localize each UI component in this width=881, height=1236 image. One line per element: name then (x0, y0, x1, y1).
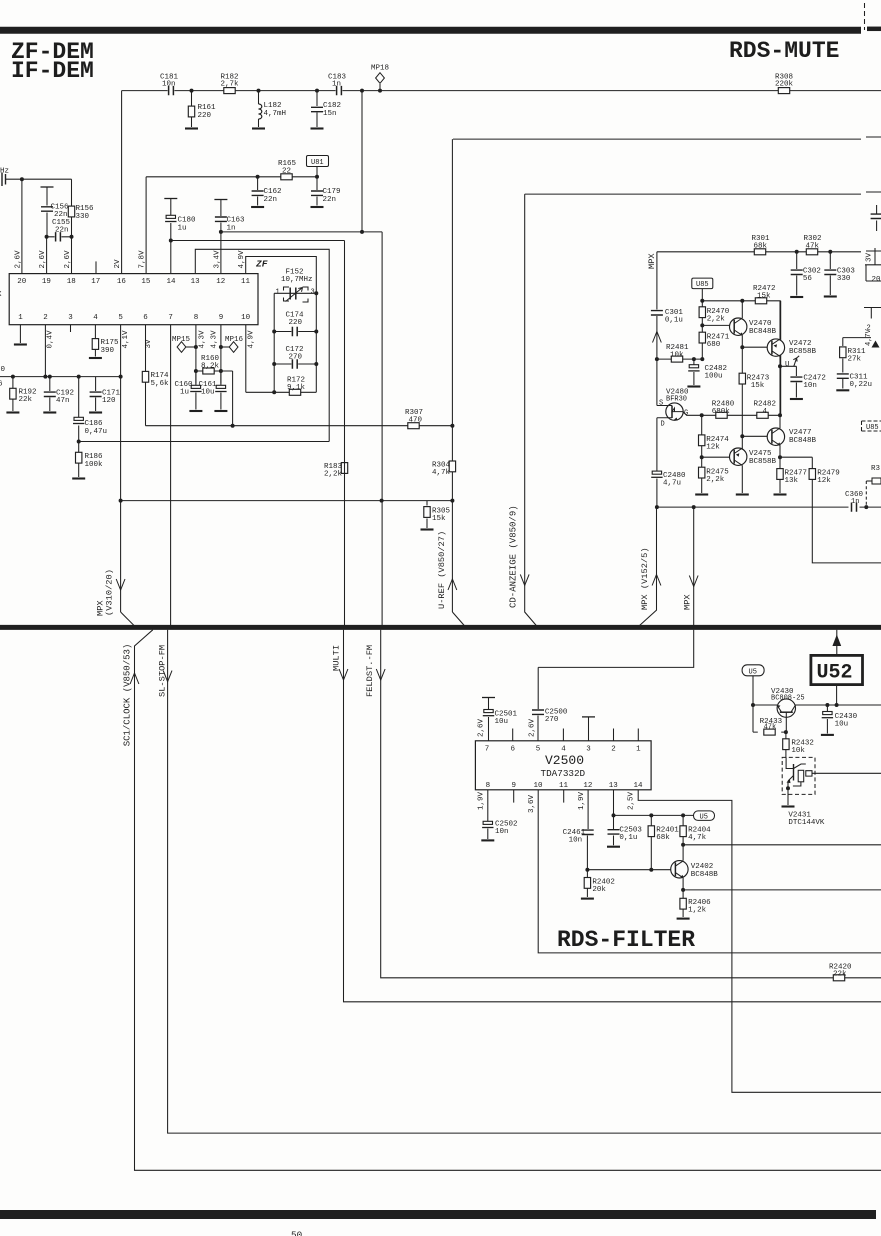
node: U-REF junction (450, 499, 454, 503)
svg-text:2,2k: 2,2k (707, 316, 726, 324)
svg-text:1,2k: 1,2k (688, 907, 707, 915)
resistor R160 (196, 355, 233, 374)
svg-text:3,6V: 3,6V (528, 794, 536, 813)
svg-text:U-REF (V850/27): U-REF (V850/27) (437, 531, 447, 609)
svg-text:4,1V: 4,1V (122, 330, 130, 349)
ground below C2503 (607, 846, 620, 848)
svg-text:3: 3 (311, 289, 315, 297)
svg-text:47k: 47k (806, 243, 820, 251)
inductor L182 (259, 91, 287, 127)
node: V2430 collector junction (784, 730, 788, 734)
wire: U-REF takeoff line y=500.6 (121, 500, 453, 502)
dashed page link + resistor fragment right edge (866, 465, 881, 507)
resistor R2402 (584, 870, 615, 897)
svg-text:3V: 3V (145, 339, 153, 349)
transistor V2475 BC858B (730, 448, 777, 493)
svg-text:220: 220 (198, 112, 212, 120)
node: C360 right (864, 505, 868, 509)
wire: pin14 riser (170, 241, 172, 274)
svg-text:220k: 220k (775, 81, 794, 89)
svg-text:C163: C163 (227, 217, 246, 225)
IC pin box U5 (filter) (694, 811, 715, 822)
resistor R2404 (680, 815, 711, 844)
ground below C161 (214, 410, 227, 412)
capacitor C161 (199, 371, 227, 410)
node: R2480 left (700, 413, 704, 417)
wire: collector rail y=844.8 (683, 844, 881, 846)
node: C303 top (828, 250, 832, 254)
capacitor C179 (311, 177, 341, 206)
svg-text:MULTI: MULTI (332, 645, 342, 671)
arrow on C301 line (653, 332, 662, 343)
wire: ZF inner left rail (273, 293, 275, 392)
svg-text:15: 15 (141, 278, 151, 286)
svg-text:15n: 15n (323, 110, 337, 118)
node: pin20 riser junction (20, 177, 24, 181)
svg-text:0,4V: 0,4V (47, 330, 55, 349)
svg-text:2,7k: 2,7k (221, 81, 240, 89)
resistor R301 (752, 235, 771, 255)
svg-text:2,2k: 2,2k (324, 471, 343, 479)
ground below C179 (311, 206, 324, 208)
svg-text:MPX: MPX (683, 594, 693, 610)
svg-text:15k: 15k (432, 515, 446, 523)
node: V2477 base junction (740, 434, 744, 438)
wire: V2402 base rail y=869.7 (587, 869, 671, 871)
capacitor C2482 (688, 359, 727, 385)
top border bus bar (0, 27, 861, 34)
capacitor C172 (274, 346, 316, 369)
node: C180 bottom junction (169, 239, 173, 243)
svg-text:10u: 10u (495, 718, 509, 726)
svg-text:MPX: MPX (647, 253, 657, 269)
resistor R2481 (666, 344, 689, 362)
resistor R165 (278, 160, 297, 180)
node: R2482 right (778, 413, 782, 417)
svg-text:5,6k: 5,6k (151, 380, 170, 388)
ground below R2402 (581, 898, 594, 900)
resistor R2480 (712, 401, 735, 419)
svg-text:R156: R156 (76, 205, 95, 213)
svg-text:4,3V: 4,3V (211, 330, 219, 349)
svg-text:4: 4 (561, 746, 566, 754)
signal MPX (V310/20) with arrow into divider (96, 569, 137, 627)
resistor R2406 (680, 890, 711, 917)
svg-text:U: U (785, 361, 790, 369)
signal MULTI drop (332, 241, 881, 1002)
wire: MPX output rail y=507.1 (657, 506, 881, 508)
resistor R2473 (739, 347, 770, 448)
svg-text:(V310/20): (V310/20) (105, 569, 115, 616)
pin 9 stub (513, 790, 515, 803)
IC pin box U85 fragment right edge (862, 421, 881, 432)
svg-text:MP15: MP15 (172, 336, 191, 344)
transistor V2480 BFR30 (657, 389, 689, 429)
svg-text:2: 2 (43, 314, 48, 322)
svg-text:10: 10 (241, 314, 251, 322)
svg-text:C182: C182 (323, 102, 341, 110)
resistor R302 (804, 235, 822, 255)
resistor R183 (324, 463, 348, 479)
wire: AFC line y=425.4 (146, 425, 453, 427)
svg-text:330: 330 (837, 275, 851, 283)
node: pin2 junction (43, 375, 47, 379)
svg-text:9: 9 (512, 782, 517, 790)
capacitor C2501 (482, 698, 518, 741)
node: R172 left junction (272, 390, 276, 394)
svg-text:9: 9 (219, 314, 224, 322)
ground below L182 (252, 128, 265, 130)
svg-text:2,5V: 2,5V (628, 791, 636, 810)
svg-text:1n: 1n (851, 498, 859, 506)
svg-text:14: 14 (167, 278, 177, 286)
svg-text:4,9V: 4,9V (248, 330, 256, 349)
svg-text:C186: C186 (85, 420, 104, 428)
wire: bias line y=376.6 (0, 376, 121, 378)
svg-text:V2472: V2472 (789, 340, 812, 348)
wire: R2472 to V2472 emitter rail (780, 301, 782, 416)
svg-text:22k: 22k (19, 396, 33, 404)
node: U52 stem (835, 703, 839, 707)
capacitor C180 (164, 199, 196, 241)
svg-text:1,9V: 1,9V (478, 791, 486, 810)
svg-text:MP18: MP18 (371, 65, 389, 73)
svg-text:3V: 3V (866, 252, 874, 262)
pin 17 stub (95, 261, 97, 273)
IC pin box U85 (692, 278, 713, 301)
svg-text:BC848B: BC848B (789, 437, 817, 445)
svg-text:15k: 15k (757, 293, 771, 301)
wire: pin15 riser (145, 177, 147, 274)
resistor R186 (76, 442, 104, 478)
capacitor C163 (214, 200, 245, 233)
ceramic filter fragment at left edge (0, 161, 9, 186)
svg-text:56: 56 (803, 275, 813, 283)
svg-text:68k: 68k (656, 834, 670, 842)
capacitor C301 (651, 252, 684, 359)
svg-text:S: S (659, 400, 663, 408)
wire: pin 13 rail y=815.4 (614, 790, 694, 816)
svg-text:47k: 47k (764, 723, 777, 731)
node: R192 top (11, 375, 15, 379)
svg-text:2,6V: 2,6V (529, 718, 537, 737)
svg-text:22n: 22n (264, 196, 278, 204)
svg-text:15k: 15k (751, 382, 765, 390)
node: vertical feed junction (360, 89, 364, 93)
ground below C2430 (821, 734, 834, 736)
transistor V2402 BC848B (671, 845, 719, 890)
wire: R2481 rail y=359.1 (657, 358, 702, 360)
svg-text:47n: 47n (56, 397, 70, 405)
svg-text:CD-ANZEIGE (V850/9): CD-ANZEIGE (V850/9) (509, 505, 519, 608)
adjacent page IC fragment top right (865, 248, 881, 284)
node: R2474 bottom (700, 455, 704, 459)
node: C2482 top (692, 357, 696, 361)
svg-text:100u: 100u (705, 373, 723, 381)
svg-text:C162: C162 (264, 188, 282, 196)
svg-text:U85: U85 (696, 281, 709, 289)
wire: left input line y=179.2 (5, 178, 72, 180)
svg-text:7MHz: 7MHz (0, 168, 9, 176)
bottom border bus bar (0, 1210, 876, 1219)
capacitor C182 (311, 91, 341, 127)
node: R160 right (219, 369, 223, 373)
wire: vertical from main line to C163 wire (361, 91, 363, 232)
svg-text:7,8V: 7,8V (139, 250, 147, 269)
node: pin5 line junction (119, 375, 123, 379)
svg-text:22k: 22k (833, 970, 847, 978)
IC pin box U5 (supply) (742, 665, 764, 705)
svg-text:0: 0 (1, 366, 6, 374)
svg-text:L182: L182 (264, 102, 282, 110)
capacitor C2502 (482, 790, 517, 839)
capacitor C171 (90, 377, 121, 411)
capacitor C186 (73, 377, 107, 442)
svg-text:5: 5 (118, 314, 123, 322)
svg-text:8: 8 (486, 782, 491, 790)
node: C163 bottom junction (219, 230, 223, 234)
resistor R2482 (754, 401, 777, 419)
wire: V2470 base (702, 324, 730, 326)
node: C2430 top (825, 703, 829, 707)
transistor V2470 BC848B (730, 301, 777, 347)
svg-text:IF-DEM: IF-DEM (11, 58, 94, 84)
node: C174 right (314, 330, 318, 334)
svg-text:20: 20 (872, 276, 881, 284)
svg-text:U85: U85 (866, 424, 879, 432)
ground below C2482 (687, 386, 700, 388)
capacitor C156 (41, 187, 70, 237)
signal MPX to RDS filter (538, 507, 698, 667)
node: C192 top (48, 375, 52, 379)
resistor R161 (188, 91, 216, 127)
ground below C302 (790, 296, 803, 298)
svg-text:270: 270 (545, 716, 559, 724)
svg-text:BC848B: BC848B (691, 871, 719, 879)
wire: V2480 drain drop (656, 418, 658, 507)
svg-text:220: 220 (289, 319, 303, 327)
svg-text:1,9V: 1,9V (578, 791, 586, 810)
svg-text:10k: 10k (670, 351, 684, 359)
svg-text:22n: 22n (54, 211, 68, 219)
node: R2401 top (649, 813, 653, 817)
svg-text:3: 3 (68, 314, 73, 322)
svg-text:2,6V: 2,6V (64, 250, 72, 269)
capacitor C2500 (532, 667, 568, 740)
svg-text:4,7k: 4,7k (432, 469, 451, 477)
svg-text:2,6V: 2,6V (14, 250, 22, 269)
resistor R304 (432, 461, 456, 477)
wire: pin 9 drop (220, 325, 222, 384)
svg-text:4: 4 (763, 408, 768, 416)
adjacent page pin-2 fragment (864, 308, 881, 348)
svg-text:13k: 13k (785, 477, 799, 485)
wire: pin 5 MPX drop to divider (120, 325, 122, 612)
signal FELDST.-FM drop (365, 232, 881, 978)
wire: emitter rail y=889.9 (683, 889, 881, 891)
ground below C311 (836, 389, 849, 391)
svg-text:TDA7332D: TDA7332D (541, 768, 586, 779)
capacitor C360 (845, 491, 864, 512)
capacitor C2503 (608, 815, 643, 845)
resistor R174 (142, 325, 169, 426)
svg-text:RDS-FILTER: RDS-FILTER (557, 927, 695, 953)
wire: gate/divider rail y=415.3 (683, 412, 780, 416)
svg-text:5: 5 (536, 746, 541, 754)
capacitor fragment right edge (871, 205, 881, 231)
node: C182 junction (315, 89, 319, 93)
pin 1 stub to ground (19, 325, 21, 343)
svg-text:7: 7 (168, 314, 173, 322)
wire: RDS-MUTE feed y=139 (453, 137, 881, 139)
ground below R192 (6, 412, 19, 414)
svg-text:V2500: V2500 (545, 753, 584, 768)
capacitor C174 (274, 312, 316, 337)
crystal F152 10,7MHz (274, 269, 316, 303)
wire: pin16 riser to main line (121, 91, 123, 274)
wire: V2475 base rail (702, 456, 731, 458)
svg-text:U5: U5 (700, 814, 708, 822)
svg-text:3: 3 (586, 746, 591, 754)
svg-text:V2475: V2475 (749, 450, 772, 458)
svg-text:0,22u: 0,22u (850, 381, 873, 389)
node: drain junction (655, 505, 659, 509)
svg-text:10k: 10k (791, 747, 805, 755)
capacitor C160 (175, 371, 202, 410)
svg-text:1: 1 (276, 289, 280, 297)
node: C155 right junction (70, 235, 74, 239)
svg-text:RDS-MUTE: RDS-MUTE (729, 38, 839, 64)
ground below R161 (185, 128, 198, 130)
svg-text:1n: 1n (227, 225, 236, 233)
svg-text:4,7u: 4,7u (663, 480, 681, 488)
resistor R311 (840, 338, 871, 373)
resistor R2477 (777, 457, 807, 493)
svg-text:470: 470 (409, 417, 423, 425)
signal U-REF (V850/27) arrow up (437, 531, 466, 628)
wire: pin13 loop return y=441.5 (79, 441, 330, 443)
svg-text:270: 270 (289, 354, 303, 362)
svg-text:BC808-25: BC808-25 (771, 695, 805, 703)
node: C186 branch (77, 375, 81, 379)
capacitor C155 (47, 219, 72, 242)
wire: CD-ANZEIGE feed y=194 (525, 192, 881, 194)
svg-text:R161: R161 (198, 104, 217, 112)
ground below C182 (311, 128, 324, 130)
wire: pin12 riser (220, 232, 222, 274)
svg-text:10n: 10n (803, 382, 817, 390)
capacitor C162 (252, 177, 282, 206)
svg-text:12k: 12k (706, 444, 720, 452)
resistor R175 (92, 325, 119, 357)
ground below C162 (251, 206, 264, 208)
wire: R165 line y=176.8 (146, 176, 317, 178)
resistor R192 (10, 377, 37, 411)
test point MP15 (172, 336, 198, 352)
svg-text:C180: C180 (178, 217, 197, 225)
svg-text:11: 11 (241, 278, 251, 286)
svg-text:MPX (V152/5): MPX (V152/5) (640, 547, 650, 610)
svg-text:R186: R186 (85, 453, 104, 461)
node: R2470 bottom (700, 323, 704, 327)
svg-text:7: 7 (485, 746, 490, 754)
ground below R305 (421, 529, 434, 531)
svg-text:11: 11 (559, 782, 569, 790)
ground below C2502 (481, 839, 494, 841)
node: C172 right (314, 362, 318, 366)
node: R160 drop junction (231, 424, 235, 428)
node: C162 junction (256, 175, 260, 179)
wire: V2477 base rail (742, 435, 768, 437)
svg-text:27k: 27k (848, 356, 862, 364)
node: FELDST junction (380, 499, 384, 503)
svg-text:18: 18 (67, 278, 76, 286)
svg-text:10u: 10u (201, 389, 215, 397)
node: U85 stem (700, 299, 704, 303)
svg-text:50: 50 (291, 1230, 302, 1236)
node: pin13 junction (612, 813, 616, 817)
ground below C2472 (790, 398, 803, 400)
svg-text:13: 13 (191, 278, 201, 286)
svg-text:1u: 1u (178, 225, 187, 233)
svg-text:0,47u: 0,47u (85, 428, 108, 436)
svg-text:1u: 1u (180, 389, 189, 397)
wire: pin 10 to RDS output (538, 790, 881, 953)
resistor R156 (68, 179, 94, 273)
node: V2470 collector (740, 299, 744, 303)
svg-text:12: 12 (216, 278, 225, 286)
svg-text:0,1u: 0,1u (665, 317, 683, 325)
resistor R2470 (699, 301, 730, 326)
node: UT measuring point (778, 356, 799, 369)
svg-text:14: 14 (634, 782, 644, 790)
page edge dashed mark top right (864, 3, 866, 30)
wire: R2472 rail y=300.8 (702, 300, 780, 302)
svg-text:22: 22 (282, 168, 291, 176)
svg-text:8: 8 (194, 314, 199, 322)
svg-text:BC858B: BC858B (789, 348, 817, 356)
svg-text:V2477: V2477 (789, 429, 812, 437)
ground below C303 (824, 296, 837, 298)
svg-text:6: 6 (0, 381, 3, 389)
ground below C160 (189, 410, 202, 412)
svg-text:2,6V: 2,6V (39, 250, 47, 269)
resistor R2432 (783, 732, 814, 757)
ground below C192 (43, 412, 56, 414)
wire: V2480 source rail (656, 359, 658, 405)
test point MP16 (219, 336, 244, 352)
node: R2401 bottom (649, 868, 653, 872)
wire: U-REF vertical x=452.4 (451, 139, 453, 612)
node: R160 left (194, 369, 198, 373)
capacitor C2472 (780, 366, 826, 397)
IC pin box U81 (307, 156, 329, 177)
svg-text:10u: 10u (835, 721, 849, 729)
svg-text:100k: 100k (85, 461, 104, 469)
node: R2404 top (681, 813, 685, 817)
svg-text:680k: 680k (712, 408, 731, 416)
transistor V2477 BC848B (767, 415, 816, 457)
node: R304 top junction (450, 424, 454, 428)
pin 3 T stub (582, 717, 595, 741)
svg-text:8,2k: 8,2k (201, 363, 220, 371)
svg-text:10,7MHz: 10,7MHz (281, 276, 313, 284)
svg-text:FELDST.-FM: FELDST.-FM (365, 645, 375, 697)
ground below R2406 (677, 918, 690, 920)
node: y500 left (119, 499, 123, 503)
resistor R182 (221, 74, 240, 94)
node: MPX drop junction (692, 505, 696, 509)
